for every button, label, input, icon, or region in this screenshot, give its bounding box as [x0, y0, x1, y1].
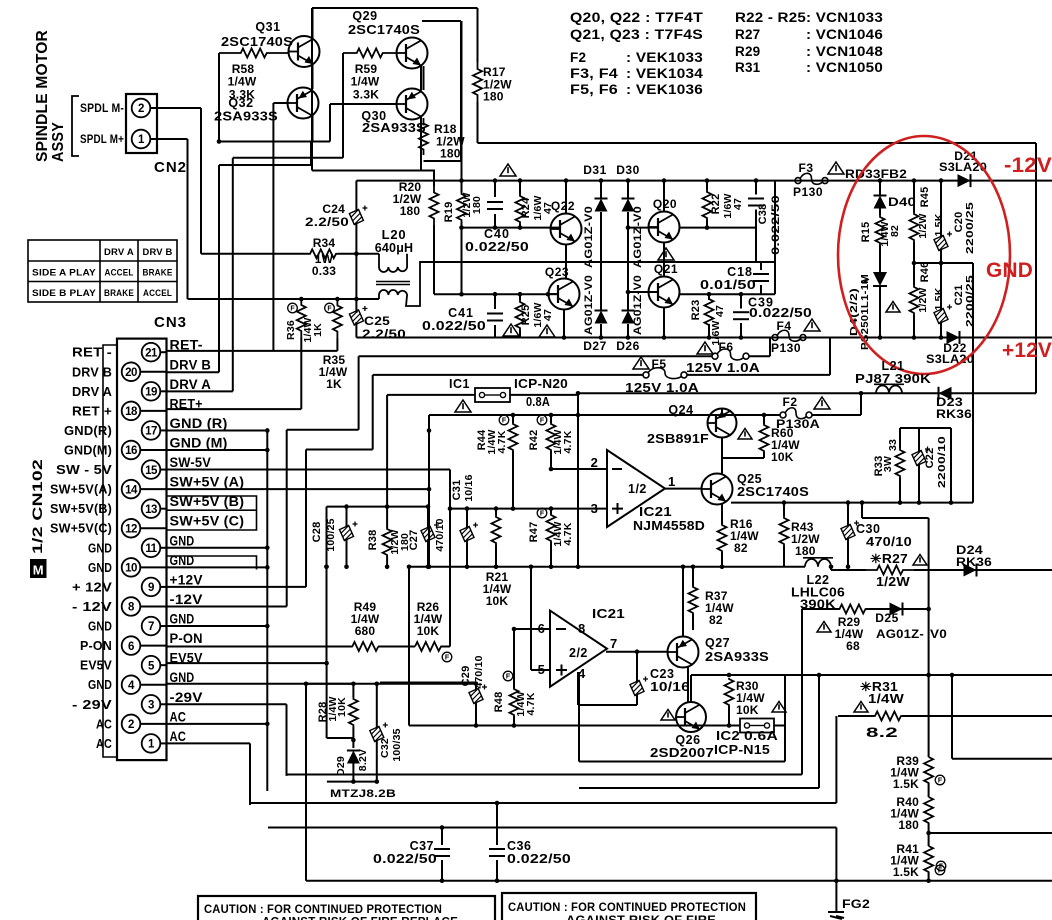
- svg-text:ICP-N20: ICP-N20: [514, 377, 568, 391]
- capacitor C21: [940, 263, 942, 310]
- warning triangle photocoupler: [886, 302, 900, 313]
- wire R26 to riser: [441, 646, 450, 648]
- svg-text:GND: GND: [986, 259, 1033, 282]
- warning triangle F3: [828, 162, 844, 174]
- svg-text:SW-5V: SW-5V: [170, 455, 212, 470]
- svg-text:1/4W: 1/4W: [228, 75, 257, 89]
- svg-text:470/10: 470/10: [866, 535, 912, 549]
- capacitor C37: [441, 828, 443, 845]
- svg-text:Q26: Q26: [675, 733, 700, 747]
- svg-text:D30: D30: [616, 163, 640, 177]
- wire RET- to R35: [167, 350, 338, 352]
- wire pin4 drop: [577, 672, 579, 705]
- wire F2 to rail riser: [812, 414, 861, 416]
- svg-text:47: 47: [732, 198, 744, 210]
- CN3 pin 16: [122, 441, 141, 460]
- wire Q31 collector top: [312, 8, 314, 39]
- diode D30 lower: [622, 311, 635, 324]
- svg-text:: VCN1048: : VCN1048: [806, 44, 883, 59]
- svg-text:AG01Z-V0: AG01Z-V0: [583, 275, 595, 335]
- photocoupler D4 PS2501L1-1M: [879, 245, 881, 272]
- svg-text:180: 180: [483, 90, 504, 104]
- wire main bottom bus: [409, 566, 805, 568]
- svg-text:47: 47: [542, 309, 554, 321]
- transistor Q24: [708, 409, 737, 438]
- wire GND bus vertical: [266, 430, 268, 791]
- svg-text:: VCN1050: : VCN1050: [806, 60, 883, 75]
- wire to R31: [835, 716, 837, 803]
- svg-text:SW+5V (C): SW+5V (C): [170, 514, 245, 529]
- svg-text:IC21: IC21: [639, 505, 672, 519]
- wire GND pin11: [167, 547, 267, 549]
- svg-text:4.7K: 4.7K: [496, 430, 508, 453]
- wire D25 right drop: [928, 518, 930, 675]
- svg-text:R31: R31: [735, 60, 761, 75]
- wire right edge drop: [972, 263, 974, 503]
- wire R29 row: [802, 608, 839, 610]
- wire Q26 collector rail: [690, 675, 692, 703]
- op-amp IC21 1/2: [607, 450, 665, 527]
- capacitor C22: [918, 428, 920, 452]
- wire opamp rail riser: [408, 567, 410, 726]
- svg-text:0.022/50: 0.022/50: [749, 306, 812, 320]
- svg-text:180: 180: [898, 818, 919, 832]
- CN2 pin 2: [132, 99, 151, 118]
- svg-text:5: 5: [538, 662, 545, 677]
- svg-text:: VEK1033: : VEK1033: [626, 50, 703, 65]
- wire Q24 emitter: [721, 438, 723, 459]
- svg-text:R34: R34: [313, 236, 336, 250]
- svg-text:DRV B: DRV B: [170, 357, 212, 372]
- transistor Q25: [721, 458, 723, 474]
- wire v578: [577, 393, 579, 567]
- svg-text:F5: F5: [651, 357, 666, 371]
- svg-text:BRAKE: BRAKE: [143, 268, 173, 279]
- wire long 803: [250, 802, 836, 804]
- wire corner step x358: [358, 356, 360, 430]
- resistor R41: [924, 846, 933, 872]
- svg-text:100/35: 100/35: [391, 728, 403, 761]
- red ellipse: [838, 136, 1010, 374]
- wire mid horizontal: [312, 170, 435, 172]
- svg-text:P130: P130: [771, 341, 801, 355]
- resistor R36: [297, 299, 306, 337]
- svg-text:D25: D25: [875, 611, 899, 625]
- svg-text:R42: R42: [528, 430, 540, 451]
- svg-text:19: 19: [145, 387, 157, 399]
- svg-text:R22: R22: [710, 194, 722, 215]
- svg-text:F3, F4: F3, F4: [570, 66, 618, 81]
- wire v531 from bus: [530, 567, 532, 670]
- svg-text:R23: R23: [690, 300, 702, 321]
- capacitor C18: [760, 262, 762, 270]
- capacitor C24: [349, 209, 363, 224]
- svg-text:M: M: [33, 563, 44, 578]
- svg-text:3: 3: [591, 501, 598, 516]
- svg-text:2SA933S: 2SA933S: [705, 650, 769, 664]
- wire riser to IC1 line: [372, 375, 374, 450]
- svg-text:F: F: [540, 418, 545, 425]
- wire R40 junction row: [929, 832, 1052, 834]
- svg-text:GND(R): GND(R): [64, 423, 112, 438]
- svg-text:Q20, Q22 : T7F4T: Q20, Q22 : T7F4T: [570, 10, 704, 25]
- svg-text:2200/25: 2200/25: [964, 202, 976, 254]
- wire secondary bottom: [188, 298, 380, 300]
- diode D31: [600, 181, 602, 198]
- warning triangle F2: [814, 397, 830, 409]
- warning triangle F5: [633, 357, 649, 369]
- svg-text:DRV B: DRV B: [143, 247, 173, 258]
- wire GND pin4: [167, 683, 354, 685]
- resistor R34: [201, 253, 308, 255]
- svg-text:DRV A: DRV A: [170, 377, 212, 392]
- svg-text:AGAINST RISK OF FIRE REPLA: AGAINST RISK OF FIRE REPLACE: [262, 917, 458, 920]
- svg-text:1: 1: [668, 474, 675, 489]
- capacitor C39: [740, 294, 742, 308]
- svg-text:C32: C32: [379, 738, 391, 758]
- wire bottom bus: [306, 880, 1052, 882]
- left cable bracket: [103, 345, 117, 757]
- svg-text:SPINDLE MOTOR: SPINDLE MOTOR: [34, 30, 51, 162]
- svg-text:2200/10: 2200/10: [936, 436, 948, 488]
- svg-text:AC: AC: [170, 729, 187, 744]
- svg-text:8.2: 8.2: [866, 724, 898, 740]
- svg-text:47: 47: [714, 305, 726, 317]
- svg-text:F: F: [327, 306, 332, 313]
- capacitor C31: [466, 509, 468, 528]
- wire R31 row: [838, 715, 874, 717]
- svg-text:14: 14: [125, 484, 138, 496]
- label box SW+5V (B)(C): [167, 496, 257, 530]
- svg-text:R29: R29: [735, 44, 760, 59]
- resistor R38: [386, 395, 388, 528]
- ground FG2: [835, 881, 837, 912]
- wire Q30 base: [330, 103, 396, 105]
- svg-text:2/2: 2/2: [569, 646, 588, 660]
- svg-text:10K: 10K: [736, 703, 759, 717]
- svg-text:C37: C37: [410, 839, 434, 853]
- CN3 pin 13: [142, 499, 161, 518]
- svg-text:180: 180: [471, 196, 483, 214]
- wire Q27 to Q26: [687, 667, 689, 703]
- wire +12V bottom rail: [356, 337, 1052, 339]
- svg-text:RD33FB2: RD33FB2: [845, 167, 907, 181]
- svg-text:1/4W: 1/4W: [868, 692, 904, 706]
- transistor Q26: [676, 702, 706, 732]
- svg-text:D4(2/2): D4(2/2): [849, 288, 860, 336]
- resistor R40: [928, 783, 930, 797]
- svg-text:180: 180: [400, 204, 421, 218]
- resistor R29: [839, 605, 866, 614]
- svg-text:3: 3: [148, 699, 154, 711]
- svg-text:6: 6: [538, 621, 545, 636]
- svg-text:1/2W: 1/2W: [876, 575, 910, 589]
- svg-text:SW+5V (A): SW+5V (A): [170, 475, 245, 490]
- svg-text:4.7K: 4.7K: [562, 430, 574, 453]
- caution box 1: [198, 896, 495, 920]
- wire collector box: [460, 21, 462, 161]
- capacitor C20: [940, 181, 942, 237]
- fuse F6: [359, 355, 712, 357]
- wire Q23 base: [548, 293, 559, 295]
- svg-text:R15: R15: [860, 222, 872, 243]
- svg-text:2SA933S: 2SA933S: [362, 121, 426, 135]
- svg-text:9: 9: [148, 582, 154, 594]
- wire -12V top rail: [356, 180, 1052, 182]
- wire R34 to L20: [338, 253, 379, 255]
- CN3 pin 18: [122, 402, 141, 421]
- wire -29V long: [287, 774, 803, 776]
- svg-text:F5, F6: F5, F6: [570, 82, 618, 97]
- fuse F4: [772, 335, 778, 341]
- svg-text:R22 - R25: R22 - R25: [735, 10, 806, 25]
- svg-text:: VEK1034: : VEK1034: [626, 66, 703, 81]
- svg-text:+12V: +12V: [1002, 339, 1052, 362]
- wire GND(R): [167, 429, 267, 431]
- resistor R25: [519, 294, 521, 300]
- transistor Q30: [397, 89, 428, 120]
- svg-text:AC: AC: [96, 716, 112, 731]
- capacitor C23: [636, 652, 638, 682]
- svg-text:C36: C36: [507, 839, 531, 853]
- CN3 pin 7: [142, 617, 161, 636]
- svg-text:F: F: [506, 674, 511, 681]
- svg-text:8: 8: [578, 621, 585, 636]
- wire clamp bottom: [327, 781, 379, 783]
- wire opamp1 output: [665, 488, 702, 490]
- wire box bottom Q26: [579, 761, 785, 763]
- CN3 pin 9: [142, 578, 161, 597]
- warning triangle R29: [817, 622, 831, 633]
- svg-text:12: 12: [125, 523, 137, 535]
- transistor Q21: [649, 277, 680, 308]
- wire R35 step into box: [427, 428, 432, 433]
- diode D25: [866, 608, 928, 610]
- capacitor C28: [346, 507, 348, 527]
- svg-text:0.8A: 0.8A: [526, 395, 550, 409]
- resistor R23: [708, 294, 710, 300]
- wire R19 bottom: [461, 222, 463, 294]
- svg-text:1/2 CN102: 1/2 CN102: [29, 459, 45, 554]
- svg-text:: VCN1033: : VCN1033: [806, 10, 883, 25]
- svg-text:ACCEL: ACCEL: [143, 288, 172, 299]
- capacitor C41: [494, 294, 496, 309]
- svg-text:2: 2: [591, 455, 598, 470]
- transistor Q27: [668, 637, 699, 668]
- svg-text:IC1: IC1: [449, 377, 470, 391]
- svg-text:10: 10: [125, 563, 137, 575]
- svg-text:BRAKE: BRAKE: [104, 288, 134, 299]
- warning triangle R31: [854, 702, 868, 713]
- resistor R42: [550, 415, 552, 423]
- resistor R58: [219, 49, 289, 58]
- box R33 C22: [900, 427, 951, 429]
- svg-text:IC2: IC2: [716, 729, 740, 743]
- resistor R44: [512, 415, 514, 423]
- svg-text:F6: F6: [718, 340, 733, 354]
- wire opamp2 output: [606, 651, 668, 653]
- svg-text:680: 680: [355, 624, 376, 638]
- svg-text:C23: C23: [650, 667, 674, 681]
- svg-text:2SB891F: 2SB891F: [647, 432, 709, 446]
- svg-text:NJM4558D: NJM4558D: [633, 519, 705, 533]
- svg-text:10/16: 10/16: [650, 680, 690, 694]
- diode D31 lower: [595, 311, 608, 324]
- wire SW-5V: [167, 469, 450, 471]
- svg-text:GND (R): GND (R): [170, 416, 228, 431]
- svg-text:100/25: 100/25: [325, 518, 337, 551]
- CN3 pin 11: [142, 539, 161, 558]
- wire box right edge: [774, 181, 776, 295]
- wire C27 C28 top rail: [327, 506, 430, 508]
- svg-text:R45: R45: [919, 187, 931, 208]
- resistor R24: [519, 181, 521, 194]
- CN2 pin 1: [132, 130, 151, 149]
- svg-text:0.01/50: 0.01/50: [700, 278, 756, 292]
- CN3 pin 3: [142, 695, 161, 714]
- connector CN2: [126, 94, 157, 153]
- svg-text:V0: V0: [930, 627, 947, 641]
- wire P-ON pin6: [167, 646, 353, 648]
- resistor R33: [899, 428, 901, 448]
- transistor Q22: [551, 214, 582, 245]
- wire SW+5V(A): [167, 488, 429, 490]
- svg-text:R25: R25: [520, 305, 532, 326]
- svg-text:F3: F3: [798, 161, 813, 175]
- warning triangle Q26: [661, 710, 675, 721]
- svg-text:AC: AC: [96, 736, 112, 751]
- svg-text:10K: 10K: [486, 594, 509, 608]
- svg-text:-29V: -29V: [170, 690, 203, 705]
- svg-text:82: 82: [709, 613, 723, 627]
- resistor R48: [513, 629, 515, 688]
- wire R22 bottom bus: [679, 227, 756, 229]
- svg-text:C25: C25: [364, 314, 390, 328]
- wire R17 down to right rail: [477, 102, 479, 143]
- warning triangle F6: [697, 342, 713, 354]
- svg-text:82: 82: [889, 225, 901, 237]
- svg-text:-12V: -12V: [1004, 154, 1052, 177]
- svg-text:Q21: Q21: [654, 262, 678, 276]
- svg-text:IC21: IC21: [592, 607, 625, 621]
- warning triangle Q20: [658, 248, 674, 260]
- CN3 pin 6: [122, 636, 141, 655]
- svg-text:470/10: 470/10: [434, 518, 446, 551]
- wire L22-R27 junction: [829, 565, 834, 570]
- svg-text:2SD2007: 2SD2007: [650, 746, 714, 760]
- CN3 pin 21: [142, 343, 161, 362]
- resistor R15: [876, 215, 885, 245]
- svg-text:D40: D40: [888, 197, 916, 209]
- svg-text:2.2/50: 2.2/50: [305, 215, 349, 229]
- svg-text:11: 11: [145, 543, 157, 555]
- svg-text:GND (M): GND (M): [170, 436, 228, 451]
- module mark M: [30, 559, 47, 578]
- svg-text:RET +: RET +: [72, 403, 112, 418]
- svg-text:1/2W: 1/2W: [917, 213, 929, 238]
- svg-text:7: 7: [610, 636, 617, 651]
- svg-text:CAUTION : FOR CONTINUED PROT: CAUTION : FOR CONTINUED PROTECTION: [204, 904, 442, 916]
- svg-text:RK36: RK36: [956, 555, 992, 569]
- svg-text:6: 6: [128, 641, 134, 653]
- wire v306 lower: [305, 684, 307, 881]
- svg-text:Q32: Q32: [228, 96, 253, 110]
- fuse F3: [795, 178, 801, 184]
- svg-text:L21: L21: [881, 359, 904, 373]
- svg-text:GND: GND: [88, 677, 112, 692]
- wire stair mid: [579, 787, 819, 789]
- svg-text:2SA933S: 2SA933S: [214, 110, 278, 124]
- svg-text:C24: C24: [322, 202, 345, 216]
- svg-text:AGAINST RISK OF FIRE: AGAINST RISK OF FIRE: [566, 915, 716, 920]
- CN3 pin 8: [122, 597, 141, 616]
- svg-text:ICP-N15: ICP-N15: [714, 743, 770, 757]
- svg-text:F: F: [939, 864, 944, 871]
- wire Q24 collector top: [721, 409, 723, 416]
- op-amp IC21 2/2: [550, 611, 607, 687]
- svg-text:0.022/50: 0.022/50: [373, 852, 437, 866]
- svg-text:1.5K: 1.5K: [933, 213, 945, 236]
- svg-text:R19: R19: [443, 202, 455, 223]
- wire R35 bottom: [336, 338, 338, 351]
- wire Q20 column: [663, 181, 665, 212]
- wire AC pin1: [167, 742, 250, 744]
- svg-text:Q22: Q22: [551, 199, 575, 213]
- svg-text:C28: C28: [311, 522, 323, 543]
- diode D40 column R15: [879, 181, 881, 196]
- svg-text:P-ON: P-ON: [170, 631, 203, 646]
- warning triangle IC2: [772, 702, 786, 713]
- CN3 pin 2: [122, 715, 141, 734]
- svg-text:SIDE A PLAY: SIDE A PLAY: [32, 268, 96, 279]
- svg-text:AG01Z-: AG01Z-: [876, 627, 924, 641]
- resistor R22: [706, 181, 708, 190]
- CN3 pin 14: [122, 480, 141, 499]
- resistor R19: [461, 21, 463, 192]
- svg-text:GND: GND: [170, 612, 195, 627]
- capacitor C25: [349, 310, 363, 325]
- svg-text:180: 180: [795, 544, 816, 558]
- svg-text:10/16: 10/16: [463, 474, 475, 501]
- fuse F2: [780, 412, 786, 418]
- wire secondary top out: [420, 261, 748, 263]
- capacitor C36: [496, 805, 498, 845]
- svg-text:F2: F2: [782, 395, 797, 409]
- wire +12V pin9: [167, 586, 306, 588]
- resistor R43: [783, 503, 785, 516]
- svg-text:C30: C30: [856, 522, 880, 536]
- diode D22: [947, 331, 960, 344]
- wire Q25 collector right: [731, 502, 973, 504]
- svg-text:F: F: [502, 418, 507, 425]
- svg-text:- 12V: - 12V: [72, 599, 112, 614]
- svg-text:1K: 1K: [312, 323, 324, 337]
- resistor R37: [692, 567, 694, 586]
- svg-text:R27: R27: [735, 27, 760, 42]
- wire CN2 pin2: [150, 107, 201, 109]
- svg-text:P-ON: P-ON: [80, 638, 112, 653]
- transistor Q23: [549, 279, 580, 310]
- svg-text:2: 2: [128, 719, 134, 731]
- wire long 827: [268, 827, 836, 829]
- svg-text:C22: C22: [924, 448, 936, 469]
- svg-text:0.6A: 0.6A: [744, 729, 778, 743]
- svg-text:C38: C38: [757, 204, 769, 225]
- svg-text:AG01Z-V0: AG01Z-V0: [583, 206, 595, 268]
- svg-text:F: F: [938, 778, 943, 785]
- wire clamp top rail: [306, 683, 476, 685]
- diode D23: [939, 387, 952, 400]
